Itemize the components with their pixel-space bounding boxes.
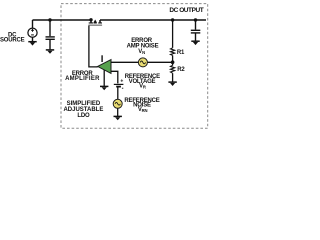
resistor R2 bbox=[171, 62, 175, 82]
svg-text:LDO: LDO bbox=[77, 113, 90, 119]
svg-text:AMP NOISE: AMP NOISE bbox=[127, 43, 159, 49]
node D: feedback junction dot bbox=[171, 60, 175, 64]
svg-text:VRN: VRN bbox=[138, 107, 148, 113]
DC source V1 bbox=[28, 20, 37, 37]
svg-text:+: + bbox=[120, 78, 123, 84]
resistor R1 bbox=[171, 20, 175, 62]
label: DC OUTPUT bbox=[169, 7, 203, 14]
wire: reference noise to ground bbox=[117, 108, 119, 116]
noise source VRN (reference noise, yellow circle) bbox=[113, 99, 122, 108]
svg-text:VR: VR bbox=[139, 84, 146, 90]
svg-text:VN: VN bbox=[138, 49, 145, 55]
svg-text:R2: R2 bbox=[177, 67, 185, 73]
wire: top rail from DC source to MOSFET drain bbox=[33, 19, 92, 21]
svg-text:DC OUTPUT: DC OUTPUT bbox=[169, 7, 203, 14]
wire: top rail from MOSFET source to output terminal bbox=[100, 19, 206, 21]
label: DC SOURCE bbox=[0, 33, 25, 44]
noise source VN (error amp noise, yellow circle) bbox=[138, 58, 147, 67]
label: ERROR AMP NOISE VN bbox=[127, 38, 159, 55]
op-amp U1 (error amplifier, green triangle pointing left) bbox=[98, 60, 111, 74]
dashed LDO boundary box bbox=[61, 4, 208, 129]
ground (under C1) bbox=[46, 50, 54, 54]
label: REFERENCE NOISE VRN bbox=[124, 98, 159, 113]
wire: noninverting input to reference bbox=[111, 71, 118, 83]
ground (under C2) bbox=[191, 41, 199, 45]
label: ERROR AMPLIFIER bbox=[65, 71, 100, 82]
node B: MOSFET drain junction dot bbox=[89, 18, 92, 21]
transistor Q1 (PMOS pass FET) bbox=[88, 20, 102, 26]
wire: inverting input from divider bbox=[111, 61, 173, 63]
svg-text:ADJUSTABLE: ADJUSTABLE bbox=[63, 107, 103, 113]
ground (under reference noise) bbox=[114, 116, 122, 120]
ground (under error amplifier) bbox=[100, 86, 108, 90]
svg-text:SOURCE: SOURCE bbox=[0, 38, 25, 44]
node A: input cap junction bbox=[48, 18, 51, 21]
node C: output/R1 junction dot bbox=[171, 18, 174, 21]
stub: amp top pin bbox=[101, 55, 103, 62]
capacitor C2 (output) bbox=[191, 20, 201, 41]
capacitor C1 (input) bbox=[46, 20, 55, 49]
wire: gate drive from error amplifier to Q1 gate bbox=[89, 26, 98, 67]
label: REFERENCE VOLTAGE VR bbox=[125, 74, 160, 89]
battery VR (reference voltage) bbox=[114, 78, 124, 99]
wire: amp ground pin bbox=[103, 70, 105, 86]
ground (under DC source) bbox=[28, 37, 36, 46]
ground (under R2) bbox=[168, 82, 176, 86]
label: SIMPLIFIED ADJUSTABLE LDO bbox=[63, 101, 103, 119]
node E: output cap junction dot bbox=[194, 18, 197, 21]
label: R2 bbox=[177, 67, 185, 73]
svg-text:AMPLIFIER: AMPLIFIER bbox=[65, 76, 100, 82]
svg-text:R1: R1 bbox=[177, 50, 185, 56]
label: R1 bbox=[177, 50, 185, 56]
